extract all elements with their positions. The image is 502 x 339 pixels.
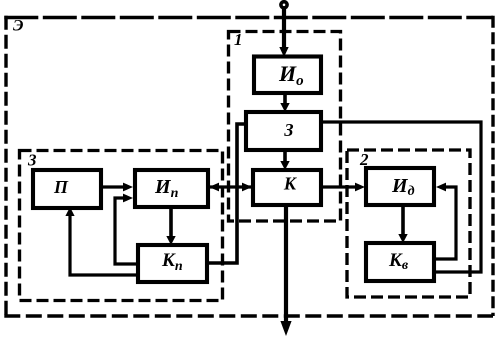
svg-text:1: 1 <box>234 30 243 49</box>
block Кп <box>138 245 207 282</box>
wire: Ио to З arrow <box>280 93 289 112</box>
label Э <box>13 18 23 35</box>
dashed box 2 (right subsystem) <box>347 150 470 297</box>
svg-text:Э: Э <box>13 18 23 35</box>
wire: З to К arrow <box>280 150 289 170</box>
wire: input line into Ио <box>279 8 288 57</box>
wire: П to Ип arrow <box>101 183 133 192</box>
wire: Ип to Кп arrow <box>166 207 175 245</box>
dashed box 3 (left subsystem) <box>20 151 223 301</box>
label 3 <box>27 151 37 170</box>
svg-text:Ид: Ид <box>391 175 415 199</box>
svg-text:К: К <box>283 174 298 194</box>
node: input terminal circle <box>281 2 287 8</box>
wire: Кп feedback up to З <box>207 124 246 263</box>
svg-text:З: З <box>283 120 293 140</box>
block З <box>246 112 321 150</box>
label 2 <box>359 150 369 169</box>
wire: Ид to Кв arrow <box>398 205 407 243</box>
svg-text:Ип: Ип <box>154 176 179 201</box>
svg-text:П: П <box>53 177 69 197</box>
wire: К to Ид arrow <box>321 183 365 192</box>
dashed box 1 (central subsystem) <box>229 32 341 222</box>
svg-text:Кп: Кп <box>161 250 183 274</box>
svg-text:Кв: Кв <box>388 250 409 273</box>
block П <box>33 170 101 208</box>
wire: З to Кв (right side run) <box>321 122 481 272</box>
block Ип <box>135 170 208 207</box>
label 1 <box>234 30 243 49</box>
svg-text:Ио: Ио <box>278 61 304 89</box>
block Кв <box>366 243 434 281</box>
wire: К output down through boundary with arrow <box>280 205 291 336</box>
block Ио <box>254 57 321 94</box>
wire: Кп feedback to П <box>65 207 138 275</box>
block Ид <box>366 168 434 205</box>
wire: Кв feedback to Ид <box>434 183 456 259</box>
wire: Кп feedback to Ип <box>115 194 138 264</box>
wire: К to Ип double arrow <box>209 183 253 192</box>
svg-text:3: 3 <box>27 151 37 170</box>
block К <box>253 170 321 205</box>
